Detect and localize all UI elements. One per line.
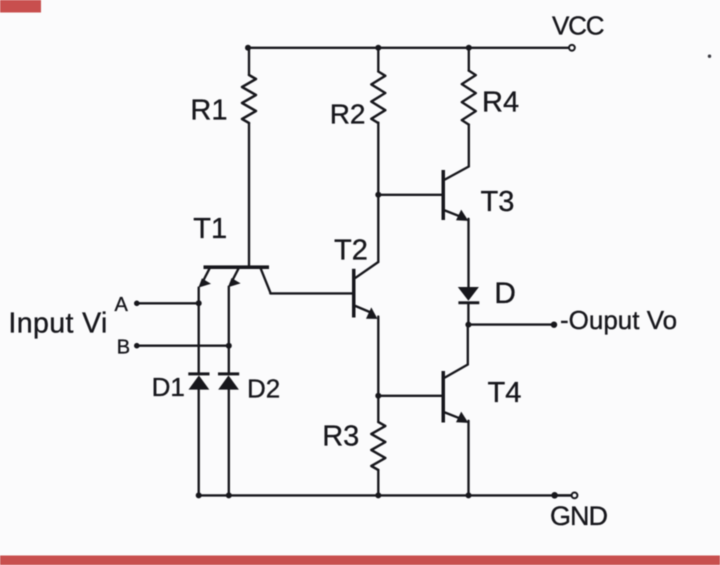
svg-text:VCC: VCC [552, 10, 604, 40]
svg-text:B: B [117, 336, 130, 358]
svg-text:R4: R4 [482, 86, 519, 118]
svg-text:T3: T3 [481, 186, 515, 218]
svg-text:R3: R3 [322, 420, 359, 452]
svg-text:D1: D1 [152, 372, 185, 402]
svg-text:D2: D2 [247, 374, 280, 404]
svg-text:R2: R2 [330, 99, 366, 130]
svg-text:R1: R1 [190, 94, 227, 126]
svg-text:GND: GND [550, 501, 608, 531]
svg-text:T1: T1 [193, 213, 227, 245]
svg-text:D: D [494, 277, 516, 310]
svg-text:-Ouput Vo: -Ouput Vo [560, 305, 677, 335]
svg-text:Input Vi: Input Vi [8, 307, 107, 339]
svg-text:T2: T2 [334, 235, 368, 267]
svg-text:A: A [115, 294, 129, 316]
svg-text:T4: T4 [488, 377, 522, 409]
